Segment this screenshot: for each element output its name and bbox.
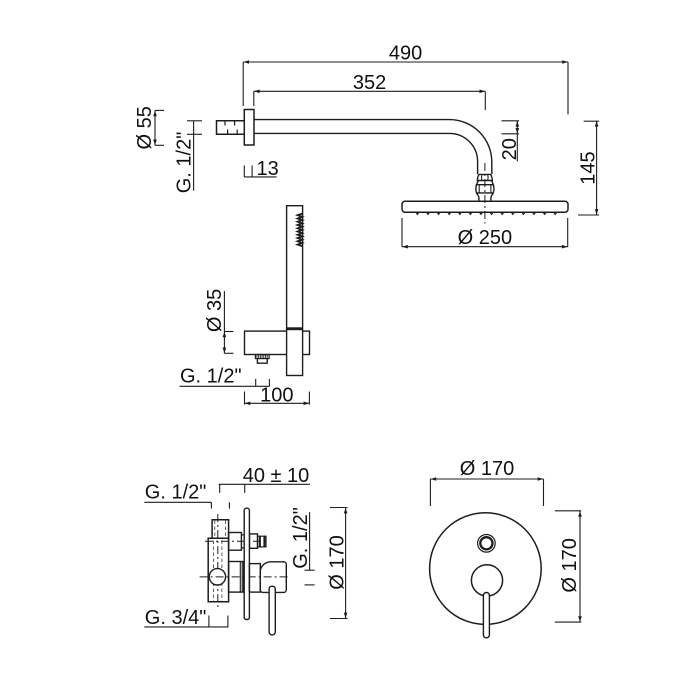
label G. 1/2" (hand shower) [180,379,270,386]
middle outlet [229,562,244,593]
hand shower bracket box [245,331,310,354]
mixer body centerline vertical [217,514,219,607]
svg-text:G. 1/2": G. 1/2" [173,132,195,194]
svg-text:40 ± 10: 40 ± 10 [243,465,310,487]
ball joint connector [476,174,494,201]
dimension 490 [243,60,568,114]
svg-text:Ø 170: Ø 170 [559,538,581,592]
svg-text:Ø 170: Ø 170 [460,458,514,480]
dimension Ø 55 [153,110,164,145]
top outlet centerline [205,540,269,542]
svg-text:100: 100 [260,384,293,406]
bracket outlet nipple thread [255,355,269,359]
shower arm pipe with bend [254,120,492,175]
wand spray face [298,214,303,247]
dimension 145 [578,121,599,215]
handle lever (front) [483,593,489,638]
top outlet to arm [229,533,266,551]
wand joint band [287,327,303,330]
bracket outlet nipple cap [257,359,267,364]
dimension 100 [245,392,310,406]
svg-text:Ø 55: Ø 55 [134,106,156,149]
svg-text:Ø 170: Ø 170 [326,535,348,589]
svg-text:13: 13 [257,158,279,180]
label G. 1/2" (mixer top inlet) [144,502,229,508]
head nozzle serration [409,212,563,214]
svg-text:490: 490 [389,43,422,65]
svg-text:145: 145 [578,151,600,184]
dimension 13 (flange) [244,165,276,177]
mixer horizontal centerline [200,576,289,578]
handle base circle (front) [471,565,502,596]
handle cylinder [249,564,260,593]
mixer cartridge circle [209,569,225,585]
mixer body [208,520,228,602]
svg-text:Ø 35: Ø 35 [204,289,226,332]
svg-text:20: 20 [499,138,521,160]
label G. 1/2" (mixer middle outlet) [305,512,315,585]
hand shower wand [287,206,303,376]
handle hub [260,562,286,593]
svg-text:G. 1/2": G. 1/2" [180,366,242,388]
rain shower head [402,201,568,212]
label G. 1/2" (arm thread) [187,121,202,191]
svg-text:G. 3/4": G. 3/4" [145,607,207,629]
escutcheon plate circle (front) [430,513,542,625]
wall flange plate [244,110,254,146]
svg-text:G. 1/2": G. 1/2" [290,507,312,569]
label G. 3/4" [144,616,228,627]
dimension Ø 170 (front right) [555,511,582,622]
mixer body hidden thread lines [213,521,225,602]
dimension Ø 170 (front top) [430,477,543,506]
dimension Ø 35 [223,291,234,353]
threaded nipple [217,121,245,135]
wall plate (side) [244,508,249,619]
head centerline [484,163,486,224]
dimension 352 [254,90,485,111]
dimension Ø 250 [402,218,568,249]
dimension Ø 170 (side) [330,508,348,619]
svg-text:352: 352 [353,72,386,94]
svg-text:Ø 250: Ø 250 [458,227,512,249]
dimension 40 ± 10 [219,484,310,493]
dimension 20 (pipe) [502,121,520,162]
diverter button [478,535,496,553]
handle lever (side) [269,586,275,635]
svg-text:G. 1/2": G. 1/2" [145,481,207,503]
